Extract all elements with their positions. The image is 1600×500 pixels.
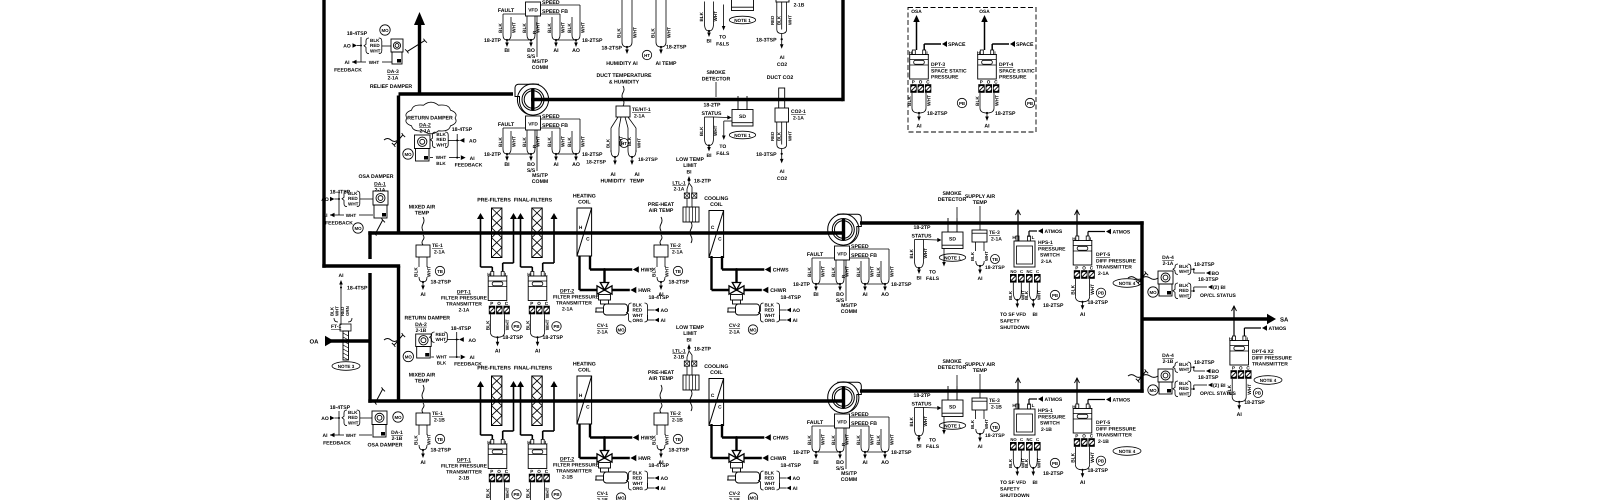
svg-text:ATMOS: ATMOS: [1269, 326, 1287, 332]
cooling coil 2-1A: [709, 211, 724, 258]
svg-text:AO: AO: [321, 197, 329, 203]
svg-text:H: H: [579, 393, 583, 399]
svg-text:DA-3: DA-3: [387, 69, 399, 75]
svg-text:WHT: WHT: [348, 420, 359, 425]
svg-text:TO: TO: [719, 35, 726, 41]
svg-text:MO: MO: [1149, 290, 1157, 295]
svg-text:18-2TP: 18-2TP: [694, 347, 712, 353]
svg-text:TO: TO: [929, 270, 936, 276]
svg-text:AI: AI: [780, 55, 786, 61]
svg-text:WHT: WHT: [713, 11, 718, 22]
svg-text:AI: AI: [1080, 312, 1086, 318]
svg-text:AI: AI: [535, 348, 541, 354]
svg-text:O: O: [1239, 366, 1243, 371]
svg-text:STATUS: STATUS: [912, 402, 933, 408]
svg-text:P: P: [490, 469, 493, 474]
svg-text:18-2TSP: 18-2TSP: [602, 46, 623, 52]
svg-text:SHUTDOWN: SHUTDOWN: [1000, 493, 1030, 499]
svg-text:ATMOS: ATMOS: [1045, 229, 1063, 235]
svg-text:C: C: [1036, 269, 1039, 274]
svg-text:BLK: BLK: [414, 435, 420, 445]
svg-text:DPT-5: DPT-5: [1096, 420, 1110, 426]
svg-text:BLK: BLK: [547, 137, 553, 147]
svg-text:BLK: BLK: [1227, 384, 1233, 394]
svg-text:FAULT: FAULT: [498, 8, 515, 14]
svg-text:18-2TSP: 18-2TSP: [586, 160, 606, 166]
heating coil 2-1B: [577, 376, 592, 424]
supply fan 2-1A: [828, 214, 859, 245]
svg-text:AI: AI: [862, 460, 868, 466]
svg-text:18-2TP: 18-2TP: [484, 152, 502, 158]
svg-text:SHUTDOWN: SHUTDOWN: [1000, 325, 1030, 331]
supply fan VFD wiring 2-1A: [835, 246, 850, 260]
svg-text:MO: MO: [617, 495, 625, 500]
svg-text:AO: AO: [469, 138, 477, 144]
svg-text:CHWR: CHWR: [770, 288, 786, 294]
svg-text:18-2TSP: 18-2TSP: [669, 280, 690, 286]
svg-text:BLK: BLK: [909, 416, 914, 426]
svg-text:TO SF VFD: TO SF VFD: [1000, 312, 1026, 318]
svg-text:TB: TB: [675, 437, 681, 442]
svg-text:AI: AI: [793, 318, 799, 324]
svg-text:WHT: WHT: [545, 487, 551, 498]
svg-text:18-2TP: 18-2TP: [694, 179, 712, 185]
svg-text:WHT: WHT: [346, 433, 357, 438]
svg-text:CV-1: CV-1: [597, 323, 608, 329]
svg-text:WHT: WHT: [346, 213, 357, 218]
svg-text:TE-3: TE-3: [989, 230, 1000, 236]
svg-text:WHT: WHT: [636, 138, 641, 148]
svg-text:BLK: BLK: [652, 435, 658, 445]
wire: AHU 2-1B duct line: [368, 399, 843, 402]
svg-text:TO: TO: [929, 438, 936, 444]
svg-text:BLK: BLK: [699, 11, 704, 21]
svg-text:AI: AI: [978, 276, 984, 282]
svg-text:AI: AI: [323, 213, 329, 219]
svg-text:WHT: WHT: [667, 27, 673, 38]
svg-text:WHT: WHT: [984, 251, 989, 261]
svg-text:BLK: BLK: [807, 435, 813, 445]
svg-text:2-1A: 2-1A: [1163, 261, 1174, 267]
svg-text:18-2TP: 18-2TP: [793, 450, 811, 456]
svg-text:ATMOS: ATMOS: [1045, 397, 1063, 403]
svg-text:AI: AI: [610, 172, 616, 178]
svg-text:HWR: HWR: [638, 288, 651, 294]
svg-text:WHT: WHT: [923, 248, 928, 259]
svg-text:NOTE 1: NOTE 1: [734, 133, 751, 138]
svg-text:18-2TSP: 18-2TSP: [666, 45, 687, 51]
svg-text:AO: AO: [661, 476, 669, 482]
svg-text:C: C: [1090, 266, 1094, 271]
svg-text:AI: AI: [661, 486, 667, 492]
svg-text:WHT: WHT: [927, 95, 933, 106]
svg-text:18-2TSP: 18-2TSP: [503, 335, 524, 341]
svg-text:2-1B: 2-1B: [416, 328, 427, 334]
svg-text:AI: AI: [978, 444, 984, 450]
svg-text:TB: TB: [675, 269, 681, 274]
svg-text:VFD: VFD: [528, 8, 538, 14]
svg-text:AO: AO: [793, 308, 801, 314]
svg-text:BLK: BLK: [498, 137, 504, 147]
wire: supply duct 2-1A fan outlet: [860, 221, 1144, 224]
svg-text:PRESSURE: PRESSURE: [999, 75, 1027, 81]
svg-text:(2) BI: (2) BI: [1213, 383, 1226, 389]
svg-text:TEMP: TEMP: [415, 379, 430, 385]
svg-text:MO: MO: [404, 152, 412, 157]
svg-text:WHT: WHT: [1179, 269, 1190, 274]
svg-text:WHT: WHT: [369, 60, 380, 65]
svg-text:2-1A: 2-1A: [672, 250, 683, 256]
svg-text:18-2TSP: 18-2TSP: [927, 111, 948, 117]
svg-text:18-3TSP: 18-3TSP: [756, 37, 777, 43]
svg-text:TE/HT-1: TE/HT-1: [632, 107, 651, 113]
humidity sensor wires 2-1B (clipped): [621, 0, 623, 42]
svg-text:DETECTOR: DETECTOR: [938, 197, 967, 203]
svg-text:WHT: WHT: [581, 22, 587, 33]
svg-text:AI: AI: [470, 355, 476, 361]
svg-text:AI: AI: [553, 48, 559, 54]
svg-text:WHT: WHT: [984, 419, 989, 429]
svg-text:WHT: WHT: [545, 319, 551, 330]
svg-text:MO: MO: [749, 495, 757, 500]
svg-text:CHWS: CHWS: [773, 268, 789, 274]
svg-text:AI TEMP: AI TEMP: [655, 61, 677, 67]
cooling coil valve CV-2 2-1B: [721, 424, 723, 438]
svg-text:AI: AI: [553, 162, 559, 168]
svg-text:LIMIT: LIMIT: [683, 331, 697, 337]
svg-text:TEMP: TEMP: [973, 200, 988, 206]
svg-text:WHT: WHT: [923, 416, 928, 427]
svg-text:BLK: BLK: [776, 15, 781, 25]
svg-text:MO: MO: [617, 327, 625, 332]
svg-text:PB: PB: [513, 492, 519, 497]
smoke detector SD 2-1B (clipped): [732, 0, 754, 11]
svg-text:PB: PB: [1255, 391, 1261, 396]
svg-text:SAFETY: SAFETY: [1000, 319, 1020, 325]
svg-text:BLK: BLK: [909, 248, 914, 258]
svg-text:BLK: BLK: [1024, 290, 1029, 300]
svg-text:AO: AO: [793, 476, 801, 482]
svg-text:F&LS: F&LS: [926, 276, 940, 282]
svg-text:BLK: BLK: [831, 267, 837, 277]
svg-text:TB: TB: [992, 425, 998, 430]
svg-text:AIR TEMP: AIR TEMP: [649, 208, 674, 214]
svg-text:WHT: WHT: [1090, 284, 1096, 295]
svg-text:OSA: OSA: [979, 9, 990, 15]
svg-text:BI: BI: [1033, 312, 1039, 318]
svg-text:2-1A: 2-1A: [420, 129, 431, 135]
wire: return duct riser right: [841, 0, 844, 101]
svg-text:18-2TSP: 18-2TSP: [995, 111, 1016, 117]
svg-text:VFD: VFD: [837, 252, 847, 258]
svg-text:BI: BI: [707, 153, 713, 159]
svg-text:WHT: WHT: [870, 266, 876, 277]
diff pressure transmitter DPT-6 X2: [1232, 306, 1237, 311]
svg-text:HWS: HWS: [641, 268, 654, 274]
svg-text:SPACE: SPACE: [1016, 42, 1034, 48]
svg-text:TEMP: TEMP: [630, 179, 645, 185]
svg-text:AO: AO: [468, 338, 476, 344]
svg-text:BI: BI: [504, 162, 510, 168]
wire: return-exhaust plenum left wall: [322, 0, 325, 268]
svg-text:SD: SD: [949, 405, 956, 411]
svg-text:MO: MO: [354, 226, 362, 231]
wire: OSA channel left wall upper: [368, 231, 371, 259]
svg-text:18-2TSP: 18-2TSP: [1043, 303, 1064, 309]
svg-text:PB: PB: [1098, 291, 1104, 296]
svg-text:SD: SD: [739, 114, 746, 120]
svg-text:RED: RED: [770, 132, 775, 141]
svg-text:COIL: COIL: [710, 202, 723, 208]
svg-text:PB: PB: [1052, 293, 1058, 298]
svg-text:WHT: WHT: [505, 319, 511, 330]
svg-text:AI: AI: [420, 460, 426, 466]
svg-text:BLK: BLK: [436, 161, 446, 166]
svg-text:AI: AI: [1080, 480, 1086, 486]
svg-text:NOTE 1: NOTE 1: [944, 255, 961, 260]
svg-text:2-1A: 2-1A: [729, 330, 740, 336]
svg-text:VFD: VFD: [528, 122, 538, 128]
svg-text:WHT: WHT: [436, 155, 447, 160]
svg-text:TE-2: TE-2: [670, 243, 681, 249]
svg-text:RETURN DAMPER: RETURN DAMPER: [405, 316, 451, 322]
svg-text:18-4TSP: 18-4TSP: [781, 295, 802, 301]
svg-text:BLK: BLK: [975, 96, 981, 106]
svg-text:HPS-1: HPS-1: [1038, 408, 1053, 414]
svg-text:NOTE 3: NOTE 3: [338, 364, 355, 369]
svg-text:18-2TSP: 18-2TSP: [985, 433, 1005, 439]
supply fan 2-1B: [828, 382, 859, 413]
svg-text:P: P: [912, 80, 915, 85]
svg-text:BLK: BLK: [522, 137, 528, 147]
svg-text:2-1A: 2-1A: [793, 116, 804, 122]
svg-text:L: L: [1032, 403, 1035, 408]
svg-text:AO: AO: [881, 292, 889, 298]
svg-text:AO: AO: [572, 48, 580, 54]
svg-text:18-2TSP: 18-2TSP: [1043, 471, 1064, 477]
svg-text:BLK: BLK: [652, 267, 658, 277]
svg-text:SWITCH: SWITCH: [1040, 421, 1060, 427]
svg-text:DPT-5: DPT-5: [1096, 252, 1110, 258]
svg-text:L: L: [1032, 235, 1035, 240]
svg-text:HUMIDITY: HUMIDITY: [600, 179, 626, 185]
svg-text:WHT: WHT: [436, 355, 447, 360]
svg-text:BLK: BLK: [1008, 290, 1013, 300]
svg-text:WHT: WHT: [821, 266, 827, 277]
svg-text:OSA: OSA: [911, 9, 922, 15]
svg-text:ATMOS: ATMOS: [1113, 230, 1131, 236]
svg-text:AI: AI: [793, 486, 799, 492]
svg-text:CO2: CO2: [777, 62, 788, 68]
svg-text:PRESSURE: PRESSURE: [931, 75, 959, 81]
svg-text:BLK: BLK: [876, 267, 882, 277]
svg-text:18-2TSP: 18-2TSP: [1194, 262, 1215, 268]
svg-text:COMM: COMM: [841, 477, 857, 483]
svg-text:WHT: WHT: [561, 22, 567, 33]
svg-text:BLK: BLK: [525, 488, 531, 498]
svg-text:COMM: COMM: [841, 309, 857, 315]
svg-text:WHT: WHT: [436, 142, 447, 147]
svg-text:WHT: WHT: [788, 15, 793, 25]
svg-text:C: C: [718, 237, 722, 243]
svg-text:18-2TP: 18-2TP: [793, 282, 811, 288]
svg-text:AI: AI: [495, 348, 501, 354]
svg-text:HT: HT: [621, 141, 627, 146]
wire: return plenum bottom wall: [322, 264, 400, 267]
svg-text:GRN: GRN: [345, 306, 350, 316]
OA intake arrow: [325, 336, 334, 347]
svg-text:AI: AI: [339, 273, 345, 279]
svg-text:18-2TSP: 18-2TSP: [431, 448, 452, 454]
svg-text:VFD: VFD: [837, 420, 847, 426]
svg-text:P: P: [1075, 434, 1078, 439]
svg-text:AO: AO: [343, 44, 351, 50]
svg-text:MO: MO: [405, 354, 413, 359]
svg-text:BLK: BLK: [547, 23, 553, 33]
svg-text:NOTE 4: NOTE 4: [1119, 281, 1136, 286]
wire: supply duct riser: [1140, 221, 1143, 392]
svg-text:DUCT TEMPERATURE: DUCT TEMPERATURE: [597, 73, 652, 79]
svg-text:OA: OA: [310, 339, 320, 346]
svg-text:PB: PB: [1098, 459, 1104, 464]
svg-text:2-1A: 2-1A: [1041, 259, 1052, 265]
svg-text:AI: AI: [916, 124, 922, 130]
svg-text:AIR TEMP: AIR TEMP: [649, 376, 674, 382]
svg-text:STATUS: STATUS: [702, 111, 723, 117]
svg-text:FINAL-FILTERS: FINAL-FILTERS: [514, 198, 553, 204]
svg-text:18-2TSP: 18-2TSP: [891, 282, 912, 288]
svg-text:CV-2: CV-2: [729, 491, 740, 497]
svg-text:PB: PB: [1052, 461, 1058, 466]
svg-text:RED: RED: [770, 16, 775, 25]
svg-text:TB: TB: [992, 257, 998, 262]
svg-text:BLK: BLK: [856, 267, 862, 277]
svg-text:ORG: ORG: [765, 486, 776, 491]
svg-text:DETECTOR: DETECTOR: [702, 77, 731, 83]
svg-text:COIL: COIL: [578, 200, 591, 206]
svg-text:WHT: WHT: [788, 131, 793, 141]
diff pressure transmitter DPT-5 2-1A: [1075, 210, 1080, 215]
svg-text:WHT: WHT: [664, 434, 670, 445]
svg-text:C: C: [1036, 437, 1039, 442]
svg-text:P: P: [530, 469, 533, 474]
svg-text:ATMOS: ATMOS: [1113, 398, 1131, 404]
wire: AHU 2-1A duct line: [368, 231, 843, 234]
svg-text:BLK: BLK: [498, 23, 504, 33]
svg-text:BI: BI: [707, 39, 713, 45]
svg-text:WHT: WHT: [1090, 452, 1096, 463]
svg-text:BLK: BLK: [699, 126, 704, 136]
svg-text:SA: SA: [1280, 317, 1289, 324]
svg-text:2-1B: 2-1B: [991, 405, 1002, 411]
svg-text:18-2TP: 18-2TP: [913, 225, 931, 231]
svg-text:C: C: [586, 405, 590, 411]
svg-text:COIL: COIL: [578, 368, 591, 374]
svg-text:TE-2: TE-2: [670, 411, 681, 417]
svg-text:DPT-3: DPT-3: [931, 62, 945, 68]
svg-text:HT: HT: [644, 53, 650, 58]
svg-text:18-2TSP: 18-2TSP: [1194, 360, 1215, 366]
svg-text:BLK: BLK: [1008, 458, 1013, 468]
svg-text:BLK: BLK: [807, 267, 813, 277]
svg-text:2-1B: 2-1B: [1098, 439, 1109, 445]
svg-text:FEEDBACK: FEEDBACK: [455, 162, 483, 168]
svg-text:18-2TSP: 18-2TSP: [582, 38, 603, 44]
svg-text:C: C: [545, 469, 549, 474]
heating coil valve CV-1 2-1B: [589, 424, 591, 438]
svg-text:PB: PB: [513, 324, 519, 329]
svg-text:18-2TSP: 18-2TSP: [431, 280, 452, 286]
svg-text:BLK: BLK: [525, 320, 531, 330]
svg-text:BLK: BLK: [856, 435, 862, 445]
svg-text:PB: PB: [959, 101, 965, 106]
svg-text:BLK: BLK: [1024, 458, 1029, 468]
svg-text:WHT: WHT: [370, 48, 381, 53]
svg-text:18-2TSP: 18-2TSP: [1088, 300, 1109, 306]
svg-text:F&LS: F&LS: [926, 444, 940, 450]
svg-text:PRE-FILTERS: PRE-FILTERS: [477, 366, 511, 372]
svg-text:18-4TSP: 18-4TSP: [347, 286, 368, 292]
svg-text:WHT: WHT: [426, 266, 432, 277]
svg-text:2-1B: 2-1B: [672, 418, 683, 424]
svg-text:BI: BI: [687, 338, 693, 344]
svg-text:AO: AO: [881, 460, 889, 466]
svg-text:WHT: WHT: [505, 487, 511, 498]
wire: return duct horizontal (fan outlet side): [399, 92, 514, 95]
svg-text:FINAL-FILTERS: FINAL-FILTERS: [514, 366, 553, 372]
svg-text:WHT: WHT: [1179, 391, 1190, 396]
svg-text:2-1A: 2-1A: [375, 188, 386, 194]
svg-text:18-2TP: 18-2TP: [484, 38, 502, 44]
svg-text:RETURN DAMPER: RETURN DAMPER: [407, 116, 453, 122]
svg-text:DPT-6 X2: DPT-6 X2: [1252, 349, 1274, 355]
svg-text:BI: BI: [504, 48, 510, 54]
svg-text:18-4TSP: 18-4TSP: [451, 326, 472, 332]
svg-text:AI: AI: [984, 124, 990, 130]
svg-text:18-2TSP: 18-2TSP: [669, 448, 690, 454]
svg-text:P: P: [1232, 366, 1235, 371]
svg-text:FAULT: FAULT: [498, 122, 515, 128]
svg-text:2-1B: 2-1B: [459, 476, 470, 482]
svg-text:AO: AO: [321, 416, 329, 422]
svg-text:TEMP: TEMP: [973, 368, 988, 374]
duct CO2 sensor 2-1B (clipped): [776, 0, 789, 2]
svg-text:BLK: BLK: [414, 267, 420, 277]
svg-text:2-1B: 2-1B: [1163, 359, 1174, 365]
svg-text:DETECTOR: DETECTOR: [938, 365, 967, 371]
svg-text:AI: AI: [470, 156, 476, 162]
svg-text:PRE-FILTERS: PRE-FILTERS: [477, 198, 511, 204]
svg-text:2-1A: 2-1A: [562, 307, 573, 313]
svg-text:18-2TP: 18-2TP: [913, 393, 931, 399]
svg-text:BLK: BLK: [485, 320, 491, 330]
high pressure switch HPS-1 2-1B: [1016, 378, 1021, 383]
svg-text:COIL: COIL: [710, 370, 723, 376]
wire: common supply air duct: [1142, 317, 1267, 320]
heating coil valve CV-1 2-1A: [589, 256, 591, 270]
svg-text:BI: BI: [687, 170, 693, 176]
svg-text:TE-1: TE-1: [432, 243, 443, 249]
svg-text:18-2TSP: 18-2TSP: [543, 335, 564, 341]
svg-text:2-1B: 2-1B: [1041, 427, 1052, 433]
svg-text:2-1B: 2-1B: [794, 3, 805, 9]
svg-text:BLK: BLK: [437, 360, 447, 365]
svg-text:SD: SD: [949, 237, 956, 243]
wire: return duct horizontal (fan inlet side): [531, 98, 843, 101]
svg-text:PB: PB: [553, 324, 559, 329]
svg-text:2-1A: 2-1A: [1098, 271, 1109, 277]
svg-text:18-3TSP: 18-3TSP: [756, 152, 777, 158]
